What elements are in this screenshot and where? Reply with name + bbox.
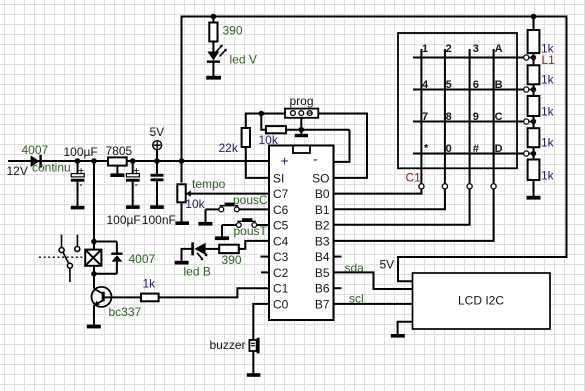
svg-text:C1: C1	[273, 282, 289, 296]
wire B0 to keypad column 1	[334, 189, 422, 194]
svg-text:4007: 4007	[22, 143, 49, 157]
wire 5V to relay coil	[93, 161, 95, 250]
resistor R3 390 led V	[209, 17, 217, 52]
wire B1 to keypad column 2	[334, 189, 445, 209]
resistor R4 390 led B	[219, 245, 239, 253]
keypad box	[398, 33, 517, 168]
node junction dots on 5V rails	[75, 14, 537, 164]
svg-text:B5: B5	[315, 266, 330, 280]
wire 5V rail (7805 output to IC + pin)	[127, 160, 269, 162]
svg-text:B3: B3	[315, 234, 330, 248]
keypad row line 4	[413, 153, 524, 155]
node keypad column terminals	[419, 184, 496, 189]
wire prog to SO pin	[318, 114, 367, 178]
wire B3 to keypad column 4	[334, 189, 494, 241]
svg-text:1k: 1k	[541, 136, 555, 150]
svg-text:100nF: 100nF	[142, 213, 176, 227]
led B diode	[191, 242, 219, 260]
wire 7805 ground lead	[116, 166, 118, 174]
resistor R2 1k base	[141, 294, 159, 302]
wire C1 pin to base resistor	[159, 288, 269, 297]
svg-text:1k: 1k	[541, 105, 555, 119]
power symbol 5V	[153, 141, 162, 161]
svg-text:A: A	[495, 43, 503, 55]
svg-text:1k: 1k	[143, 277, 157, 291]
ground LCD	[391, 334, 405, 338]
op-amp U1 PICAXE IC body	[269, 146, 334, 321]
svg-text:-: -	[80, 180, 83, 190]
pushbutton pousC	[206, 203, 270, 222]
keypad column line 2	[444, 49, 446, 184]
ground pousC	[198, 222, 212, 226]
svg-text:3: 3	[473, 43, 479, 55]
capacitor C3 100nF	[151, 161, 164, 206]
keypad row line 2	[413, 89, 524, 91]
svg-text:L1: L1	[542, 53, 556, 67]
svg-text:+: +	[79, 166, 84, 176]
wiper arrow	[186, 191, 191, 197]
svg-text:C1: C1	[406, 171, 422, 185]
diode D2 4007 flyback	[94, 242, 123, 274]
svg-text:continu: continu	[32, 161, 71, 175]
wire B4 stub	[334, 256, 342, 258]
svg-text:5V: 5V	[380, 258, 395, 272]
svg-text:390: 390	[222, 253, 242, 267]
node ground junction	[299, 127, 305, 133]
ground buzzer	[247, 373, 261, 377]
capacitor C1 100uF input	[71, 161, 85, 206]
svg-text:0: 0	[446, 143, 452, 155]
svg-text:*: *	[424, 143, 429, 155]
svg-text:2: 2	[446, 43, 452, 55]
svg-text:B7: B7	[315, 297, 330, 311]
resistor R8 1k chain 2	[528, 65, 540, 96]
svg-text:scl: scl	[349, 292, 364, 306]
node chain junction dots	[531, 55, 536, 156]
svg-text:C2: C2	[273, 266, 289, 280]
wire mechanical link dashed	[39, 256, 86, 258]
svg-text:22k: 22k	[219, 141, 239, 155]
LCD I2C module box	[413, 273, 551, 329]
wire B7 scl to LCD	[334, 303, 413, 305]
svg-text:C: C	[495, 111, 503, 123]
svg-text:C7: C7	[273, 187, 289, 201]
resistor R6 10k	[266, 126, 286, 133]
resistor R5 22k	[242, 128, 250, 147]
wire C2 stub	[261, 271, 269, 273]
wire base resistor left	[105, 296, 141, 298]
wire LCD ground pin	[398, 322, 413, 334]
wire prog rail to 22k	[246, 114, 285, 129]
ground led V	[206, 76, 221, 80]
wire 10k to ground node	[286, 129, 350, 131]
svg-text:-: -	[135, 180, 138, 190]
relay coil K1	[85, 250, 101, 266]
diode D1 4007 input	[31, 155, 42, 168]
svg-text:#: #	[473, 143, 479, 155]
svg-text:7805: 7805	[106, 144, 133, 158]
svg-text:C0: C0	[273, 297, 289, 311]
keypad column line 4	[493, 49, 495, 184]
wire prog rail to 10k	[261, 114, 266, 130]
svg-text:buzzer: buzzer	[210, 338, 246, 352]
svg-text:LCD I2C: LCD I2C	[458, 294, 504, 308]
svg-text:9: 9	[473, 111, 479, 123]
svg-text:SI: SI	[273, 171, 284, 185]
svg-text:B1: B1	[315, 203, 330, 217]
svg-text:prog: prog	[290, 94, 314, 108]
svg-text:5: 5	[446, 79, 452, 91]
resistor R9 1k chain 3	[528, 96, 540, 128]
ground led B	[175, 261, 189, 265]
wire 5V top rail loop to LCD VCC	[182, 17, 567, 282]
wire led B resistor to C4 pin	[239, 241, 269, 249]
svg-text:12V: 12V	[7, 164, 28, 178]
keypad column line 1	[420, 49, 422, 184]
svg-text:B0: B0	[315, 187, 330, 201]
svg-text:-: -	[313, 151, 318, 167]
node prog rail junction	[259, 111, 265, 117]
ground below output 100uF	[126, 205, 140, 209]
svg-text:led V: led V	[230, 53, 257, 67]
svg-text:bc337: bc337	[109, 305, 142, 319]
wire buzzer to ground	[252, 351, 254, 373]
svg-text:tempo: tempo	[192, 177, 226, 191]
regulator U2 7805	[108, 157, 127, 165]
svg-text:7: 7	[422, 111, 428, 123]
svg-text:D: D	[495, 143, 503, 155]
pushbutton pousT	[222, 218, 269, 236]
svg-text:6: 6	[473, 79, 479, 91]
svg-text:C6: C6	[273, 203, 289, 217]
svg-text:SO: SO	[312, 171, 329, 185]
svg-text:B2: B2	[315, 219, 330, 233]
ground pousT	[215, 236, 229, 240]
svg-text:+: +	[281, 153, 289, 169]
svg-text:390: 390	[223, 24, 243, 38]
ground prog	[295, 134, 308, 137]
svg-text:B6: B6	[315, 282, 330, 296]
led V diode	[207, 45, 227, 76]
ground below 100nF	[150, 205, 164, 209]
svg-text:pousT: pousT	[234, 224, 268, 238]
svg-text:1k: 1k	[541, 169, 555, 183]
svg-text:1: 1	[422, 43, 428, 55]
wire relay top to flyback diode	[94, 241, 117, 243]
wire B5 sda to LCD	[334, 272, 413, 289]
node keypad row terminals	[524, 55, 529, 156]
ground emitter	[87, 325, 101, 329]
wire C7 pin to pot wiper	[190, 193, 269, 195]
wire C0 pin to buzzer	[253, 304, 269, 340]
svg-text:100µF: 100µF	[107, 213, 141, 227]
wire relay coil to collector	[93, 266, 95, 289]
ground below input 100uF	[71, 206, 85, 210]
svg-text:B4: B4	[315, 250, 330, 264]
svg-text:B: B	[495, 79, 503, 91]
wire B2 to keypad column 3	[334, 189, 470, 225]
switch relay contact	[59, 235, 80, 282]
wire C3 stub	[261, 256, 270, 258]
svg-text:led B: led B	[184, 265, 211, 279]
svg-text:+: +	[134, 166, 139, 176]
svg-text:sda: sda	[345, 261, 365, 275]
svg-text:4007: 4007	[129, 252, 156, 266]
svg-text:pousC: pousC	[233, 193, 268, 207]
potentiometer tempo 10k	[177, 184, 185, 221]
keypad row line 3	[413, 121, 524, 123]
svg-text:10k: 10k	[185, 197, 205, 211]
resistor R11 1k chain 5	[528, 160, 540, 197]
wire 12V input rail	[8, 160, 108, 162]
capacitor C2 100uF output	[126, 161, 140, 206]
wire prog middle pin down	[300, 114, 302, 135]
svg-text:C3: C3	[273, 250, 289, 264]
svg-text:1k: 1k	[541, 73, 555, 87]
wire B6 stub	[334, 287, 342, 289]
resistor R10 1k chain 4	[528, 128, 540, 159]
keypad column line 3	[469, 49, 471, 184]
svg-text:4: 4	[422, 79, 429, 91]
connector prog	[285, 109, 318, 118]
wire ground node to minus pin	[334, 130, 350, 162]
ground 7805	[110, 173, 124, 177]
wire ground to led B	[182, 249, 192, 261]
svg-text:C4: C4	[273, 234, 289, 248]
svg-text:C5: C5	[273, 219, 289, 233]
svg-text:100µF: 100µF	[64, 145, 98, 159]
wire row terminals to resistor chain	[529, 58, 534, 154]
wire 22k to SI pin	[246, 147, 269, 178]
svg-text:5V: 5V	[150, 125, 165, 139]
svg-text:8: 8	[446, 111, 452, 123]
node collector junction	[91, 271, 97, 277]
keypad row line 1	[413, 57, 524, 59]
ground tempo pot	[175, 221, 189, 225]
buzzer BZ1	[249, 338, 259, 354]
ground resistor chain	[527, 196, 541, 200]
transistor Q1 bc337	[92, 287, 112, 325]
resistor R7 1k chain 1	[528, 17, 540, 66]
node relay top junction	[91, 239, 97, 245]
